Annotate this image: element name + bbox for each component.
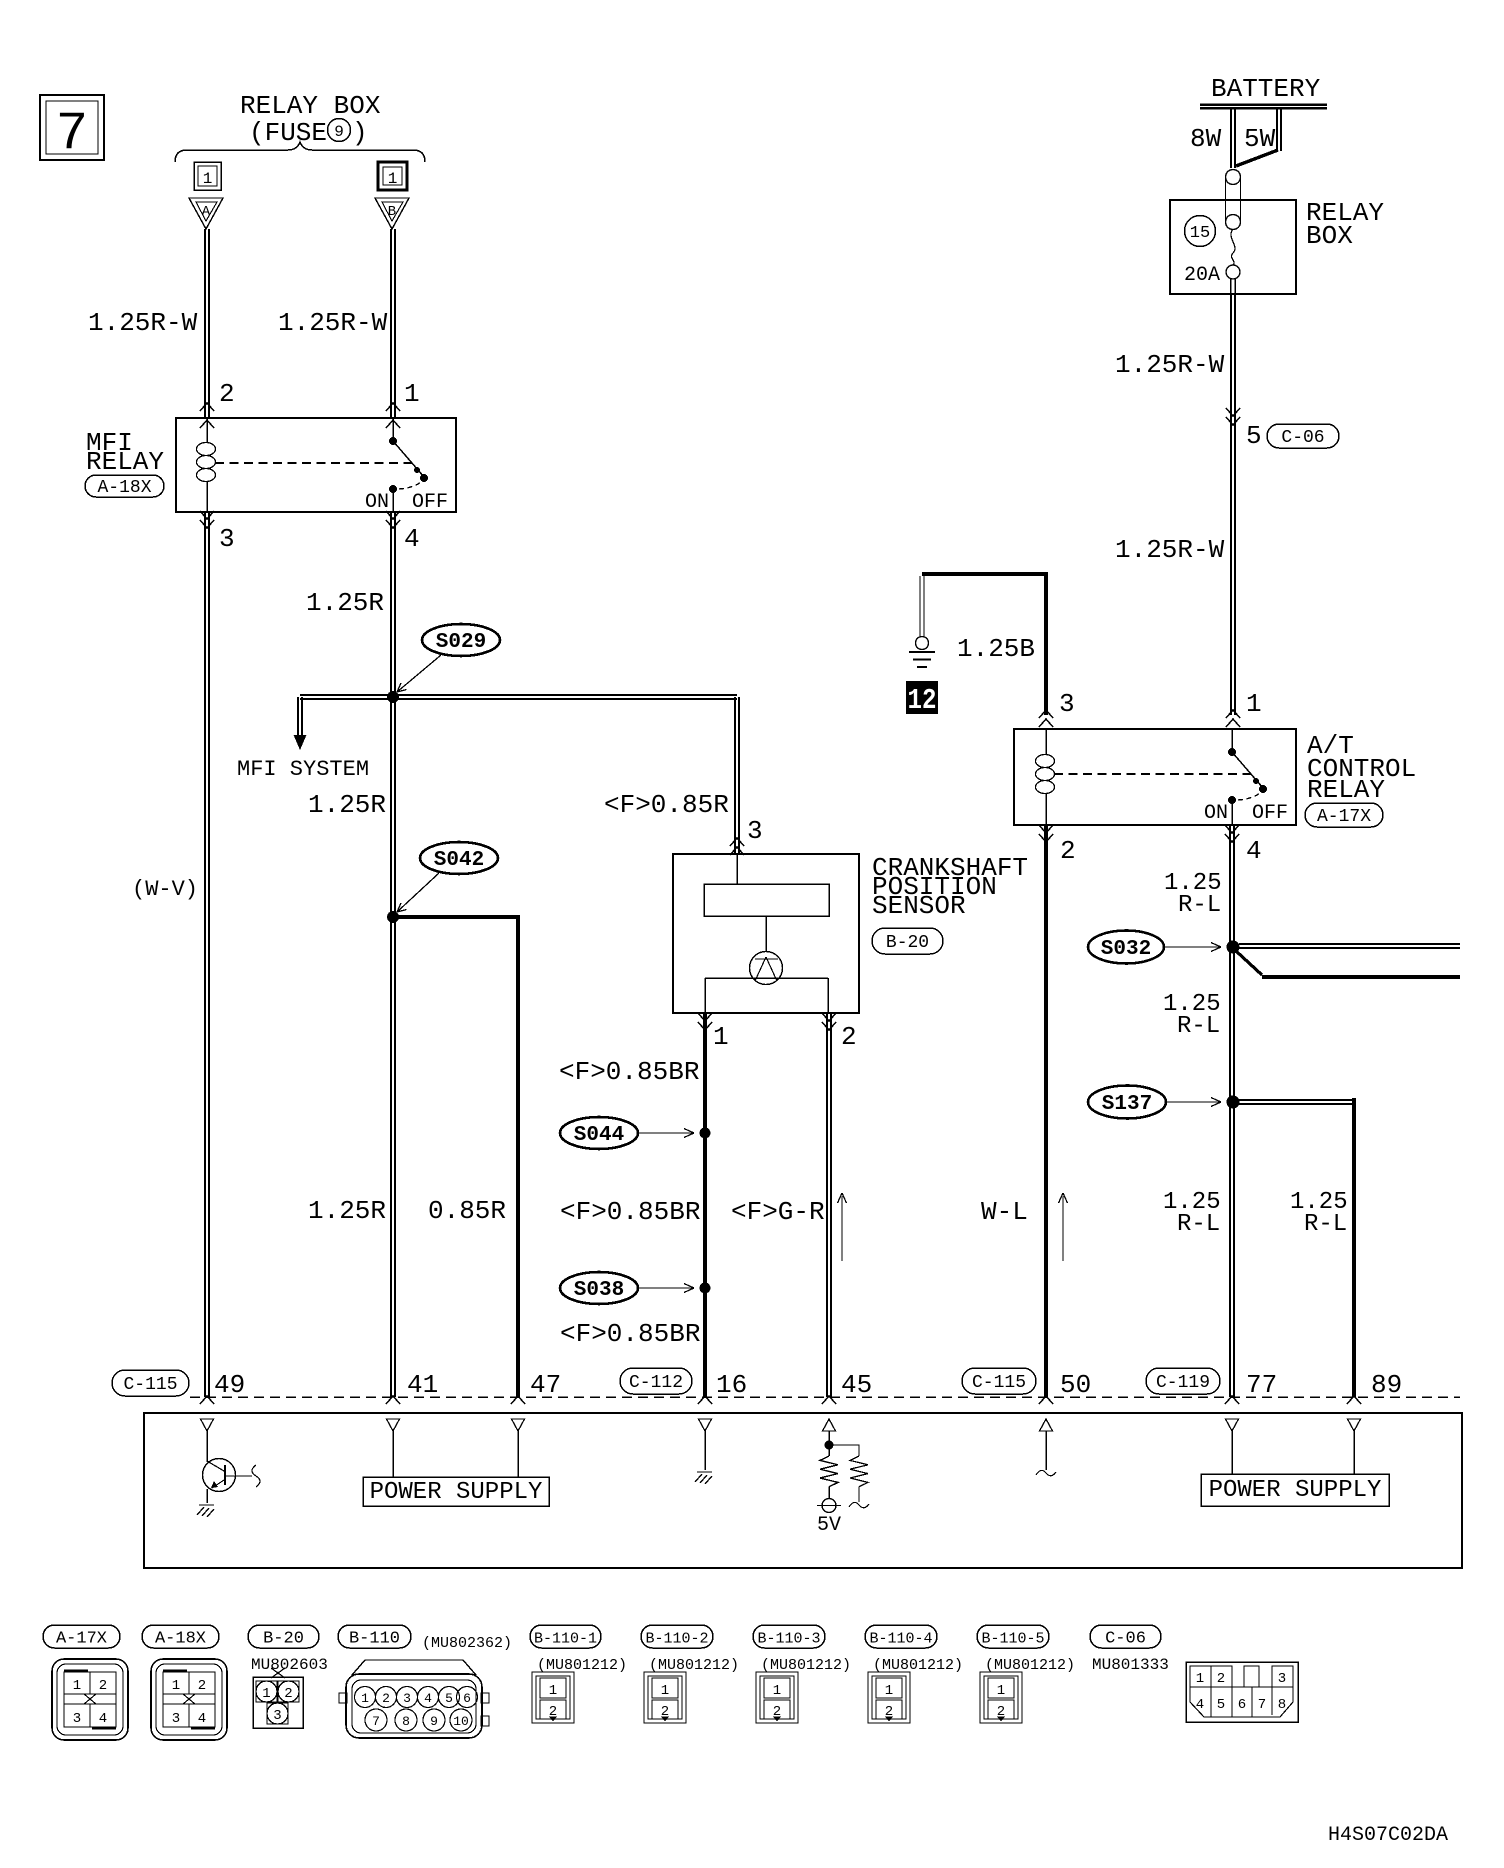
node S137 <box>1088 1086 1240 1119</box>
connector drawing B-110-1 <box>532 1672 574 1723</box>
svg-text:1: 1 <box>1196 1671 1204 1687</box>
svg-text:1.25R: 1.25R <box>306 588 384 618</box>
svg-text:S032: S032 <box>1101 938 1151 961</box>
A/T relay pin 2 <box>1039 825 1076 866</box>
node S029 <box>387 624 500 703</box>
svg-text:S029: S029 <box>436 631 486 654</box>
svg-text:5W: 5W <box>1244 124 1276 154</box>
svg-text:B: B <box>388 204 396 220</box>
fuse terminal B (fuse 1 box) <box>378 162 407 190</box>
svg-text:RELAY: RELAY <box>1307 775 1385 805</box>
connector label B-20 (bottom row) <box>248 1625 319 1648</box>
connector drawing B-110-5 <box>980 1672 1022 1723</box>
svg-text:ON: ON <box>1204 802 1228 825</box>
svg-text:9: 9 <box>334 123 344 141</box>
svg-text:2: 2 <box>1060 836 1076 866</box>
marker 12 <box>906 681 938 717</box>
svg-text:1: 1 <box>361 1691 369 1706</box>
svg-text:C-06: C-06 <box>1281 428 1324 448</box>
wire ground to A/T relay pin 3 <box>1039 572 1075 727</box>
MFI relay pin 4 <box>386 511 420 554</box>
svg-text:(MU802362): (MU802362) <box>422 1635 512 1652</box>
svg-text:R-L: R-L <box>1178 892 1221 919</box>
svg-text:B-110-3: B-110-3 <box>757 1631 820 1648</box>
connector label C-115 <box>112 1370 189 1396</box>
connector label B-110-4 (bottom row) <box>865 1625 937 1648</box>
svg-text:8W: 8W <box>1190 124 1222 154</box>
ECU ground at pin 16 <box>695 1419 712 1484</box>
wire 8W <box>1190 108 1235 168</box>
svg-text:R-L: R-L <box>1177 1211 1220 1238</box>
svg-text:BOX: BOX <box>1306 221 1353 251</box>
connector label B-110-5 (bottom row) <box>977 1625 1049 1648</box>
svg-text:50: 50 <box>1060 1370 1091 1400</box>
svg-text:S044: S044 <box>574 1124 624 1147</box>
wire branch from S032 (lower thick) <box>1236 951 1460 977</box>
A/T relay pin 4 <box>1225 825 1262 866</box>
wire W-L A/T relay pin 2 to ECU pin 50 <box>981 825 1046 1397</box>
connector label B-110-3 (bottom row) <box>753 1625 825 1648</box>
svg-text:POWER SUPPLY: POWER SUPPLY <box>1209 1477 1382 1504</box>
svg-text:MFI SYSTEM: MFI SYSTEM <box>237 757 369 782</box>
MFI relay switch <box>365 418 448 514</box>
wire branch S137 to ECU pin 89 <box>1239 1098 1356 1397</box>
svg-text:3: 3 <box>219 524 235 554</box>
svg-text:H4S07C02DA: H4S07C02DA <box>1328 1824 1448 1847</box>
svg-text:(FUSE: (FUSE <box>249 118 327 148</box>
ECU connector dashed line <box>190 1396 1460 1398</box>
ECU pin 16 <box>698 1370 747 1404</box>
connector drawing B-110-4 <box>868 1672 910 1723</box>
node S044 <box>560 1117 711 1149</box>
svg-text:ON: ON <box>365 491 389 514</box>
A/T relay link (dashed) <box>1054 773 1252 775</box>
svg-text:<F>0.85BR: <F>0.85BR <box>559 1057 699 1087</box>
svg-text:2: 2 <box>284 1686 292 1702</box>
A/T relay switch <box>1204 729 1288 825</box>
svg-text:9: 9 <box>430 1714 438 1729</box>
fusible link capsule <box>1226 170 1241 230</box>
svg-text:1.25R: 1.25R <box>308 790 386 820</box>
svg-text:1.25B: 1.25B <box>957 634 1035 664</box>
relay MFI RELAY (A-18X) <box>86 418 456 512</box>
svg-text:<F>0.85BR: <F>0.85BR <box>560 1319 700 1349</box>
svg-text:77: 77 <box>1246 1370 1277 1400</box>
svg-text:1: 1 <box>1246 689 1262 719</box>
svg-text:49: 49 <box>214 1370 245 1400</box>
relay box (battery side) <box>1170 198 1384 294</box>
svg-text:SENSOR: SENSOR <box>872 891 966 921</box>
svg-text:RELAY: RELAY <box>86 447 164 477</box>
connector drawing B-110 <box>339 1660 489 1738</box>
connector label B-110 (bottom row) <box>338 1625 411 1648</box>
svg-text:R-L: R-L <box>1304 1211 1347 1238</box>
svg-text:MU802603: MU802603 <box>251 1656 328 1674</box>
svg-text:1: 1 <box>713 1022 729 1052</box>
svg-text:3: 3 <box>747 816 763 846</box>
connector triangle B <box>375 198 409 229</box>
fuse 15 20A <box>1184 216 1240 288</box>
connector label B-110-2 (bottom row) <box>641 1625 713 1648</box>
svg-text:8: 8 <box>1278 1697 1286 1713</box>
svg-text:1: 1 <box>73 1678 81 1694</box>
wire 1.25R S042 to ECU pin 41 <box>308 917 395 1397</box>
svg-text:1: 1 <box>885 1683 893 1699</box>
sensor label B-20 <box>872 928 943 954</box>
svg-text:2: 2 <box>382 1691 390 1706</box>
svg-text:3: 3 <box>273 1708 281 1724</box>
svg-text:2: 2 <box>198 1678 206 1694</box>
svg-text:10: 10 <box>453 1714 469 1729</box>
svg-text:2: 2 <box>219 379 235 409</box>
svg-text:S042: S042 <box>434 849 484 872</box>
svg-text:<F>G-R: <F>G-R <box>731 1197 825 1227</box>
svg-text:C-06: C-06 <box>1105 1630 1146 1649</box>
svg-text:0.85R: 0.85R <box>428 1196 506 1226</box>
ECU pin 41 <box>386 1370 438 1404</box>
svg-text:1.25R: 1.25R <box>308 1196 386 1226</box>
svg-text:S137: S137 <box>1102 1093 1152 1116</box>
svg-text:A-17X: A-17X <box>56 1630 107 1649</box>
MFI relay label A-18X <box>85 475 164 497</box>
brace over fuse terminals <box>175 142 425 162</box>
svg-text:3: 3 <box>172 1711 180 1727</box>
svg-text:BATTERY: BATTERY <box>1211 74 1321 104</box>
ECU pin 77 <box>1225 1370 1277 1404</box>
sensor pin 2 <box>822 1013 857 1052</box>
wire A 1.25R-W to MFI relay pin 2 <box>88 229 235 428</box>
svg-text:4: 4 <box>1246 836 1262 866</box>
svg-text:POWER SUPPLY: POWER SUPPLY <box>370 1479 543 1506</box>
connector label A-17X (bottom row) <box>43 1625 120 1648</box>
svg-text:2: 2 <box>99 1678 107 1694</box>
ECU internal transistor at pin 49 <box>201 1419 261 1503</box>
wire B 1.25R-W to MFI relay pin 1 <box>278 229 420 428</box>
svg-text:5: 5 <box>1217 1697 1225 1713</box>
current arrow near pin 45 <box>838 1193 847 1261</box>
ECU pin 89 <box>1347 1370 1402 1404</box>
svg-text:4: 4 <box>1196 1697 1204 1713</box>
MFI relay coil <box>197 418 216 512</box>
svg-text:2: 2 <box>841 1022 857 1052</box>
svg-text:C-112: C-112 <box>629 1373 683 1393</box>
svg-text:1: 1 <box>549 1683 557 1699</box>
battery <box>1200 74 1327 108</box>
ECU power supply (right) <box>1201 1419 1389 1506</box>
sensor internal element <box>704 854 829 1013</box>
wire (F)0.85R to crankshaft sensor pin 3 <box>393 695 763 855</box>
svg-text:A-18X: A-18X <box>97 478 151 498</box>
svg-text:A: A <box>202 204 211 220</box>
svg-text:1: 1 <box>404 379 420 409</box>
svg-text:B-110: B-110 <box>349 1630 400 1649</box>
svg-text:(W-V): (W-V) <box>132 877 198 902</box>
svg-text:<F>0.85BR: <F>0.85BR <box>560 1197 700 1227</box>
svg-text:A-17X: A-17X <box>1317 807 1371 827</box>
svg-text:4: 4 <box>424 1691 432 1706</box>
sensor pin 1 <box>698 1013 729 1052</box>
svg-text:<F>0.85R: <F>0.85R <box>604 790 729 820</box>
A/T relay label A-17X <box>1305 803 1383 827</box>
svg-text:): ) <box>352 118 368 148</box>
svg-text:89: 89 <box>1371 1370 1402 1400</box>
svg-text:1: 1 <box>203 170 213 188</box>
svg-text:45: 45 <box>841 1370 872 1400</box>
svg-text:5V: 5V <box>817 1514 841 1537</box>
svg-text:20A: 20A <box>1184 264 1220 287</box>
svg-text:1: 1 <box>661 1683 669 1699</box>
svg-text:7: 7 <box>56 104 88 165</box>
relay A/T CONTROL RELAY (A-17X) <box>1014 729 1416 825</box>
wire (F)0.85BR sensor pin 1 to ECU pin 16 <box>559 1013 705 1397</box>
MFI relay pin 3 <box>200 511 235 554</box>
connector label C-06 <box>1267 424 1339 448</box>
svg-text:OFF: OFF <box>1252 802 1288 825</box>
svg-text:R-L: R-L <box>1177 1013 1220 1040</box>
ECU pin 45 <box>822 1370 872 1404</box>
svg-text:8: 8 <box>402 1714 410 1729</box>
ground symbol <box>909 637 935 668</box>
svg-text:1: 1 <box>773 1683 781 1699</box>
connector drawing C-06 <box>1186 1662 1298 1722</box>
svg-text:B-110-4: B-110-4 <box>869 1631 932 1648</box>
svg-text:16: 16 <box>716 1370 747 1400</box>
connector drawing A-18X <box>151 1659 227 1740</box>
svg-text:4: 4 <box>404 524 420 554</box>
svg-text:1: 1 <box>262 1686 270 1702</box>
index box 7 <box>40 95 104 165</box>
svg-text:1.25R-W: 1.25R-W <box>278 308 388 338</box>
wire 1.25R-L A/T relay pin 4 to ECU pin 77 <box>1163 825 1234 1397</box>
connector label B-110-1 (bottom row) <box>530 1625 601 1648</box>
wire (F)G-R sensor pin 2 to ECU pin 45 <box>731 1013 831 1397</box>
connector label C-115 (second) <box>962 1368 1036 1394</box>
wire 1.25R S029 to S042 <box>308 697 395 917</box>
svg-text:B-110-5: B-110-5 <box>981 1631 1044 1648</box>
svg-text:B-110-1: B-110-1 <box>534 1631 597 1648</box>
svg-text:1: 1 <box>997 1683 1005 1699</box>
svg-text:4: 4 <box>198 1711 206 1727</box>
node S042 <box>387 842 498 923</box>
svg-text:B-20: B-20 <box>886 933 929 953</box>
svg-text:S038: S038 <box>574 1279 624 1302</box>
A/T relay coil <box>1036 729 1055 825</box>
svg-text:3: 3 <box>73 1711 81 1727</box>
node S038 <box>560 1272 711 1304</box>
node S032 <box>1088 931 1240 964</box>
svg-text:5: 5 <box>1246 421 1262 451</box>
svg-text:1: 1 <box>172 1678 180 1694</box>
svg-text:W-L: W-L <box>981 1197 1028 1227</box>
wire 1.25R MFI relay pin 4 to S029 <box>306 512 395 697</box>
svg-text:1.25R-W: 1.25R-W <box>1115 535 1225 565</box>
ECU pin 49 <box>200 1370 245 1404</box>
svg-text:12: 12 <box>908 684 937 717</box>
wire branch from S032 (upper) <box>1239 944 1460 948</box>
connector drawing B-110-3 <box>756 1672 798 1723</box>
ground wire 1.25B <box>920 574 1046 664</box>
ECU input at pin 50 <box>1036 1419 1056 1476</box>
svg-text:47: 47 <box>530 1370 561 1400</box>
wire 1.25R-W to A/T control relay pin 1 <box>1115 279 1262 727</box>
connector drawing B-110-2 <box>644 1672 686 1723</box>
svg-text:6: 6 <box>463 1691 471 1706</box>
connector drawing A-17X <box>52 1659 128 1740</box>
svg-text:5: 5 <box>445 1691 453 1706</box>
svg-text:1.25R-W: 1.25R-W <box>88 308 198 338</box>
svg-text:3: 3 <box>1059 689 1075 719</box>
ECU power supply (left) <box>363 1419 549 1506</box>
svg-text:B-110-2: B-110-2 <box>645 1631 708 1648</box>
label RELAY BOX (FUSE 9) <box>240 91 381 148</box>
svg-text:MU801333: MU801333 <box>1092 1656 1169 1674</box>
svg-text:2: 2 <box>1217 1671 1225 1687</box>
MFI relay link (dashed) <box>215 462 412 464</box>
svg-text:C-115: C-115 <box>123 1375 177 1395</box>
ECU pull-up resistors at pin 45 <box>817 1419 869 1537</box>
ECU pin 47 <box>511 1370 561 1404</box>
wire branch to MFI SYSTEM <box>237 695 393 782</box>
svg-text:6: 6 <box>1238 1697 1246 1713</box>
svg-text:RELAY BOX: RELAY BOX <box>240 91 381 121</box>
svg-text:7: 7 <box>1258 1697 1266 1713</box>
svg-text:B-20: B-20 <box>263 1630 304 1649</box>
ECU ground at pin 49 <box>199 1504 214 1506</box>
connector label C-119 <box>1146 1368 1220 1394</box>
connector label C-112 <box>620 1368 692 1394</box>
svg-text:3: 3 <box>403 1691 411 1706</box>
connector label A-18X (bottom row) <box>142 1625 219 1648</box>
current arrow near pin 50 <box>1059 1193 1068 1261</box>
svg-text:41: 41 <box>407 1370 438 1400</box>
svg-text:1.25R-W: 1.25R-W <box>1115 350 1225 380</box>
svg-text:3: 3 <box>1278 1671 1286 1687</box>
wire 5W <box>1236 108 1281 166</box>
connector triangle A <box>189 198 223 229</box>
svg-text:A-18X: A-18X <box>155 1630 206 1649</box>
wire 0.85R S042 to ECU pin 47 <box>393 917 518 1397</box>
svg-text:4: 4 <box>99 1711 107 1727</box>
svg-text:OFF: OFF <box>412 491 448 514</box>
wire (W-V) to ECU pin 49 <box>132 512 209 1397</box>
svg-text:15: 15 <box>1190 224 1210 243</box>
ECU box <box>144 1413 1462 1568</box>
svg-text:C-115: C-115 <box>972 1373 1026 1393</box>
connector label C-06 (bottom row) <box>1090 1625 1161 1648</box>
crankshaft position sensor B-20 <box>673 853 1028 1013</box>
svg-text:7: 7 <box>372 1714 380 1729</box>
fuse terminal A (fuse 1 box) <box>194 162 221 190</box>
svg-text:C-119: C-119 <box>1156 1373 1210 1393</box>
connector drawing B-20 <box>253 1668 303 1728</box>
ECU pin 50 <box>1039 1370 1091 1404</box>
svg-text:1: 1 <box>388 170 398 188</box>
